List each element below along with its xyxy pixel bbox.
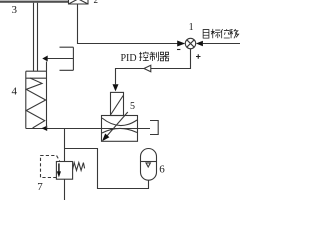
- svg-text:PID: PID: [121, 53, 137, 64]
- arrowhead into junction right: [196, 41, 203, 47]
- svg-text:2: 2: [94, 0, 99, 5]
- branch line to relief valve 7: [64, 129, 66, 162]
- arrowhead into summing junction: [177, 41, 185, 47]
- glyph 位: [221, 29, 230, 38]
- plus sign: [196, 54, 201, 59]
- throttle bottom arc: [102, 128, 137, 133]
- glyph 移: [229, 29, 238, 38]
- lever bar top (part 3 linkage): [0, 1, 69, 3]
- minus sign: [177, 49, 180, 51]
- hollow arrowhead left on PID wire: [144, 65, 151, 71]
- arrowhead down into valve: [113, 84, 119, 91]
- svg-text:1: 1: [189, 22, 194, 33]
- piston rod (double line): [34, 3, 38, 71]
- sensor U2 box (top cut): [69, 0, 89, 4]
- main flow line cylinder to port: [26, 128, 150, 130]
- svg-text:7: 7: [37, 181, 43, 193]
- relief valve pilot dash box: [41, 156, 60, 178]
- svg-text:5: 5: [130, 101, 135, 112]
- feedback fork lever: [48, 47, 74, 70]
- target input wire: [203, 43, 240, 45]
- summing junction U1: [185, 38, 195, 48]
- glyph 标: [211, 29, 221, 38]
- summing junction X: [187, 40, 194, 47]
- accumulator 6 body: [141, 149, 157, 181]
- solenoid box of valve 5: [111, 92, 124, 115]
- relief valve spring: [73, 163, 85, 171]
- arrowhead into cylinder bottom: [41, 126, 47, 131]
- glyph 制: [149, 52, 158, 61]
- glyph 目: [203, 30, 209, 39]
- glyph 控: [139, 52, 149, 61]
- svg-text:6: 6: [159, 164, 165, 176]
- relief valve 7 body: [56, 162, 72, 180]
- accumulator gas line: [141, 161, 157, 163]
- svg-text:4: 4: [12, 86, 18, 98]
- throttle top arc: [102, 118, 137, 126]
- glyph 器: [160, 52, 170, 61]
- wire sensor to summing junction: [78, 4, 178, 44]
- relief valve arrow: [58, 163, 60, 171]
- piston line: [26, 77, 47, 79]
- throttle arrow head: [102, 134, 109, 142]
- branch to accumulator: [65, 149, 149, 189]
- accumulator gas triangle: [146, 163, 150, 167]
- sensor U2 diagonals: [69, 0, 89, 4]
- solenoid diagonal: [111, 96, 123, 115]
- svg-text:3: 3: [12, 4, 18, 16]
- PID feedback wire from junction down-left: [116, 49, 191, 84]
- cylinder 4 body: [26, 62, 47, 129]
- label 目标位移: [203, 29, 239, 38]
- spring in cylinder: [26, 78, 46, 128]
- throttle adjust diagonal: [106, 112, 128, 137]
- plugged port E: [150, 121, 158, 135]
- arrowhead to rod: [42, 56, 47, 62]
- drain line to tank: [64, 179, 66, 200]
- throttle valve body 5: [102, 116, 138, 142]
